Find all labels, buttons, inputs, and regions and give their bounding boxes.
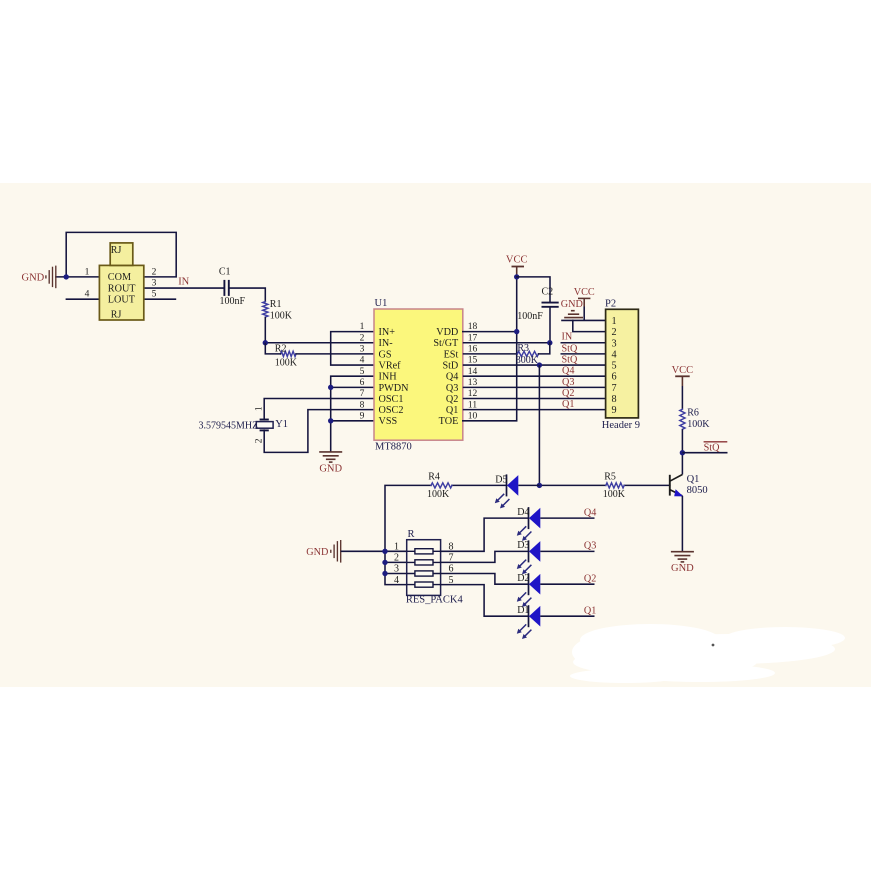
wire R1 bottom to IN- junction xyxy=(264,317,266,343)
svg-text:D3: D3 xyxy=(517,540,529,551)
resistor element 4 in RES_PACK4 xyxy=(407,582,441,587)
svg-text:4: 4 xyxy=(612,349,617,360)
svg-text:StQ: StQ xyxy=(562,354,578,365)
svg-text:14: 14 xyxy=(468,367,478,377)
wire P2 pin1 stub xyxy=(561,319,605,321)
LED D5 xyxy=(507,474,519,496)
wire Q2 (U1 pin12) to P2 pin8 xyxy=(463,398,606,400)
svg-text:16: 16 xyxy=(468,345,478,355)
wire R3 to St/GT node xyxy=(539,343,550,354)
svg-text:100nF: 100nF xyxy=(517,311,543,322)
svg-text:3: 3 xyxy=(152,278,157,288)
svg-text:OSC2: OSC2 xyxy=(379,405,404,416)
wire IN- (U1 pin2) xyxy=(265,342,374,344)
svg-text:Q2: Q2 xyxy=(584,573,596,584)
svg-text:IN: IN xyxy=(178,276,189,287)
svg-text:Q1: Q1 xyxy=(687,474,700,485)
LED D3 xyxy=(529,540,541,562)
svg-text:RJ: RJ xyxy=(111,310,122,321)
junction node at RJ pin1 xyxy=(63,274,68,279)
svg-text:2: 2 xyxy=(360,333,365,343)
ground symbol under U1 xyxy=(319,452,342,462)
wire StQ stub xyxy=(682,452,727,454)
wire junction down to R2 row xyxy=(264,343,266,354)
svg-text:Q3: Q3 xyxy=(446,383,458,394)
junction node StD drop xyxy=(537,362,542,367)
svg-text:VRef: VRef xyxy=(379,360,402,371)
wire Q1 (U1 pin11) to P2 pin9 xyxy=(463,409,606,411)
svg-text:100K: 100K xyxy=(687,419,710,430)
wire RJ pin3 to C1 xyxy=(144,287,224,289)
emission arrows D2 xyxy=(517,592,532,607)
wire INH/PWDN/VSS ground bus (U1 pins 5,6,9) xyxy=(331,376,374,452)
capacitor C2 xyxy=(542,303,559,307)
wire C1 to R1 top xyxy=(229,288,265,301)
svg-text:GND: GND xyxy=(561,299,583,310)
svg-text:4: 4 xyxy=(85,290,90,300)
junction node St/GT/C2/R3 xyxy=(547,340,552,345)
svg-text:IN: IN xyxy=(562,332,573,343)
svg-text:3: 3 xyxy=(360,345,365,355)
wire D4 anode to net Q4 xyxy=(540,517,594,519)
svg-text:LOUT: LOUT xyxy=(108,295,136,306)
svg-text:Q1: Q1 xyxy=(584,605,596,616)
ground symbol under Q1 xyxy=(671,552,694,562)
resistor R4 xyxy=(431,483,452,488)
emission arrows D5 xyxy=(495,494,510,509)
erased watermark smudge xyxy=(570,624,845,683)
wire: GND to RJ pin1 junction, loop to RJ pin2 xyxy=(56,232,176,277)
svg-text:6: 6 xyxy=(360,378,365,388)
resistor R6 xyxy=(680,409,685,429)
svg-text:GS: GS xyxy=(379,349,392,360)
svg-text:18: 18 xyxy=(468,322,478,332)
svg-text:VSS: VSS xyxy=(379,416,398,427)
wire St/GT (U1 pin17) xyxy=(463,342,550,344)
svg-text:Q2: Q2 xyxy=(446,394,458,405)
svg-text:MT8870: MT8870 xyxy=(375,442,412,453)
svg-text:3: 3 xyxy=(394,564,399,575)
net label StQ with overline (collector) xyxy=(704,441,728,443)
svg-text:6: 6 xyxy=(612,372,617,383)
wire VCC to R6 xyxy=(681,376,683,386)
wire ESt (U1 pin16) to R3 xyxy=(463,353,518,355)
junction node bus/pin1 xyxy=(382,549,387,554)
wire RJ pin4 stub xyxy=(66,298,100,300)
wire Q3 (U1 pin13) to P2 pin7 xyxy=(463,386,606,388)
wire Q4 (U1 pin14) to P2 pin6 xyxy=(463,375,606,377)
wire OSC2 (U1 pin8) to crystal xyxy=(264,410,374,453)
svg-text:9: 9 xyxy=(360,411,365,421)
svg-text:D5: D5 xyxy=(495,474,507,485)
wire VCC to C2 top xyxy=(517,277,550,303)
svg-text:1: 1 xyxy=(255,406,265,411)
svg-text:1: 1 xyxy=(85,267,90,277)
wire res pack pin8 to D4 xyxy=(441,518,529,551)
wire P2 pin2 stub xyxy=(573,320,606,331)
svg-text:VDD: VDD xyxy=(436,327,458,338)
svg-text:C2: C2 xyxy=(542,287,554,298)
svg-text:3: 3 xyxy=(612,338,617,349)
wire Q1 emitter to ground xyxy=(681,496,683,552)
svg-text:P2: P2 xyxy=(605,299,616,310)
junction node VCC/C2 branch xyxy=(514,274,519,279)
wire OSC1 (U1 pin7) to crystal xyxy=(264,399,374,420)
resistor R5 xyxy=(606,483,624,488)
svg-text:PWDN: PWDN xyxy=(379,383,410,394)
svg-text:R6: R6 xyxy=(687,408,699,419)
emission arrows D1 xyxy=(517,624,532,639)
junction node PWDN/bus xyxy=(328,385,333,390)
svg-text:1: 1 xyxy=(360,322,365,332)
capacitor C1 xyxy=(224,280,228,296)
wire D3 anode to net Q3 xyxy=(540,550,594,552)
svg-text:11: 11 xyxy=(468,400,477,410)
svg-text:5: 5 xyxy=(360,367,365,377)
junction node VDD/VCC rail xyxy=(514,329,519,334)
svg-text:100K: 100K xyxy=(275,358,298,369)
svg-text:9: 9 xyxy=(612,405,617,416)
svg-text:StQ: StQ xyxy=(562,343,578,354)
wire IN+/VRef tie bus (U1 pins 1,4) xyxy=(331,332,374,365)
svg-text:2: 2 xyxy=(612,327,617,338)
wire StD vertical drop to D5/R5 node xyxy=(538,365,540,485)
svg-text:R1: R1 xyxy=(270,299,282,310)
svg-text:R3: R3 xyxy=(517,343,529,354)
resistor R2 xyxy=(281,351,297,356)
svg-text:D2: D2 xyxy=(517,573,529,584)
svg-text:GND: GND xyxy=(22,273,45,284)
junction node R1/R2/IN- xyxy=(263,340,268,345)
junction node StD/D5/R5 xyxy=(537,483,542,488)
svg-text:R: R xyxy=(408,529,415,540)
svg-text:Q4: Q4 xyxy=(584,507,596,518)
svg-text:5: 5 xyxy=(612,361,617,372)
power VCC (above R6) xyxy=(675,375,690,377)
svg-text:StD: StD xyxy=(442,360,458,371)
svg-text:GND: GND xyxy=(306,547,328,558)
wire R5 row: StD node to Q1 base xyxy=(539,484,669,486)
svg-text:8: 8 xyxy=(360,400,365,410)
svg-text:5: 5 xyxy=(152,290,157,300)
svg-text:100K: 100K xyxy=(603,489,626,500)
svg-text:Q4: Q4 xyxy=(562,366,574,377)
svg-text:12: 12 xyxy=(468,389,478,399)
svg-text:TOE: TOE xyxy=(439,416,459,427)
power VCC (above U1) xyxy=(512,267,525,277)
svg-text:Y1: Y1 xyxy=(275,419,288,430)
svg-text:ROUT: ROUT xyxy=(108,283,137,294)
resistor element 1 in RES_PACK4 xyxy=(407,549,441,554)
ground symbol (at P2) xyxy=(564,311,583,318)
svg-text:4: 4 xyxy=(360,356,365,366)
wire C2 bottom to St/GT xyxy=(549,307,551,343)
svg-text:D1: D1 xyxy=(517,605,529,616)
resistor R3 xyxy=(517,351,538,356)
wire D5 anode to StD node xyxy=(518,484,539,486)
LED D4 xyxy=(529,507,541,529)
wire res pack pin7 to D3 xyxy=(441,551,529,562)
svg-text:1: 1 xyxy=(394,542,399,553)
crystal Y1 xyxy=(256,420,273,431)
resistor element 3 in RES_PACK4 xyxy=(407,571,441,576)
svg-text:15: 15 xyxy=(468,356,478,366)
svg-text:C1: C1 xyxy=(219,266,231,277)
svg-text:RJ: RJ xyxy=(111,245,122,256)
svg-text:D4: D4 xyxy=(517,507,529,518)
svg-text:VCC: VCC xyxy=(506,255,528,266)
svg-text:3.579545MHZ: 3.579545MHZ xyxy=(199,420,259,431)
svg-text:R2: R2 xyxy=(275,344,287,355)
wire StD (U1 pin15) to P2 pin5 xyxy=(463,364,606,366)
ground GND (left of RJ) xyxy=(46,266,56,289)
svg-text:7: 7 xyxy=(360,389,365,399)
svg-text:OSC1: OSC1 xyxy=(379,394,404,405)
LED D2 xyxy=(529,573,541,595)
svg-text:U1: U1 xyxy=(375,298,388,309)
svg-text:100K: 100K xyxy=(270,311,293,322)
svg-text:Q3: Q3 xyxy=(584,541,596,552)
wire res pack left bus xyxy=(385,551,407,584)
svg-text:2: 2 xyxy=(152,267,157,277)
wire R4 row: res pack bus to D5 cathode xyxy=(385,485,507,551)
svg-text:8: 8 xyxy=(612,394,617,405)
svg-text:1: 1 xyxy=(612,316,617,327)
svg-text:10: 10 xyxy=(468,411,478,421)
header P2 body xyxy=(606,309,639,418)
junction node bus/pin3 xyxy=(382,571,387,576)
wire P2 pin3 stub (IN) xyxy=(561,342,606,344)
svg-text:INH: INH xyxy=(379,372,398,383)
wire D2 anode to net Q2 xyxy=(540,583,594,585)
resistor pack R RES_PACK4 body xyxy=(407,540,441,596)
connector RJ tab xyxy=(110,243,133,266)
wire P2 pin4 stub (StQ) xyxy=(561,353,606,355)
resistor R1 xyxy=(263,302,268,318)
wire VCC stub to P2 pin1 xyxy=(583,298,585,306)
IC U1 MT8870 body xyxy=(374,309,463,440)
svg-text:Q2: Q2 xyxy=(562,388,574,399)
power VCC (at P2) xyxy=(578,297,590,299)
svg-text:Q1: Q1 xyxy=(446,405,458,416)
svg-text:17: 17 xyxy=(468,333,478,343)
svg-text:StQ: StQ xyxy=(704,442,720,453)
svg-text:R5: R5 xyxy=(604,472,616,483)
svg-text:IN+: IN+ xyxy=(379,327,396,338)
svg-text:COM: COM xyxy=(108,272,131,283)
junction node VSS/bus xyxy=(328,418,333,423)
connector RJ body xyxy=(99,265,143,320)
svg-text:100K: 100K xyxy=(427,489,450,500)
LED D1 xyxy=(529,605,541,627)
svg-text:ESt: ESt xyxy=(444,349,459,360)
svg-text:RES_PACK4: RES_PACK4 xyxy=(406,595,464,606)
emission arrows D4 xyxy=(517,526,532,541)
svg-text:7: 7 xyxy=(612,383,617,394)
svg-text:R4: R4 xyxy=(428,472,440,483)
wire R2 to GS (U1 pin3) xyxy=(265,353,374,355)
svg-text:GND: GND xyxy=(671,563,694,574)
svg-text:Header 9: Header 9 xyxy=(602,420,640,431)
svg-text:8050: 8050 xyxy=(687,485,708,496)
wire VCC rail down to VDD and TOE xyxy=(463,277,517,421)
svg-text:VCC: VCC xyxy=(672,365,694,376)
transistor Q1 8050 xyxy=(670,475,683,497)
wire res pack pin5 to D1 xyxy=(441,585,529,617)
svg-text:13: 13 xyxy=(468,378,478,388)
svg-text:100nF: 100nF xyxy=(220,296,246,307)
svg-text:GND: GND xyxy=(319,463,342,474)
junction node bus/pin2 xyxy=(382,560,387,565)
ground GND (left of res pack) xyxy=(331,540,341,563)
svg-text:2: 2 xyxy=(255,438,265,443)
svg-text:4: 4 xyxy=(394,575,399,586)
wire res pack pin6 to D2 xyxy=(441,574,529,585)
wire R6 to Q1 collector xyxy=(681,429,683,474)
resistor element 2 in RES_PACK4 xyxy=(407,560,441,565)
svg-text:IN-: IN- xyxy=(379,338,394,349)
junction node StQ/collector xyxy=(680,450,685,455)
wire D1 anode to net Q1 xyxy=(540,615,594,617)
svg-text:2: 2 xyxy=(394,553,399,564)
svg-text:Q1: Q1 xyxy=(562,399,574,410)
svg-text:St/GT: St/GT xyxy=(433,338,459,349)
wire GND to res pack bus xyxy=(341,550,385,552)
emission arrows D3 xyxy=(517,560,532,575)
svg-text:Q3: Q3 xyxy=(562,377,574,388)
svg-text:VCC: VCC xyxy=(574,287,595,298)
wire RJ pin5 stub xyxy=(144,298,176,300)
svg-text:Q4: Q4 xyxy=(446,372,458,383)
